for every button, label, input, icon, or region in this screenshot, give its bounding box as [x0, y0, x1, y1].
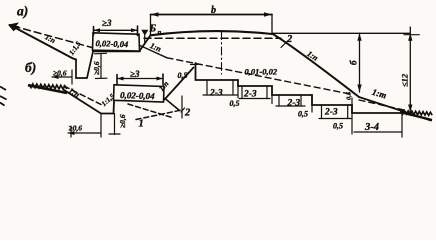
svg-text:≤12: ≤12 — [400, 73, 410, 87]
svg-text:0,02-0,04: 0,02-0,04 — [120, 90, 155, 101]
svg-text:а): а) — [17, 4, 28, 19]
svg-text:≥0,6: ≥0,6 — [53, 69, 67, 78]
svg-text:2: 2 — [286, 34, 293, 45]
svg-text:б): б) — [25, 60, 36, 75]
svg-text:2-3: 2-3 — [243, 90, 257, 100]
svg-text:2: 2 — [184, 108, 191, 119]
svg-text:2-3: 2-3 — [209, 89, 223, 99]
svg-text:1:n: 1:n — [149, 41, 163, 54]
svg-text:≥3: ≥3 — [102, 18, 112, 28]
svg-text:2-3: 2-3 — [287, 99, 301, 109]
svg-text:Б: Б — [149, 24, 157, 35]
svg-text:1: 1 — [139, 119, 144, 130]
svg-text:≥3: ≥3 — [130, 69, 140, 79]
svg-text:0,5: 0,5 — [230, 99, 240, 108]
svg-text:3-4: 3-4 — [364, 122, 379, 133]
svg-text:б: б — [349, 60, 359, 65]
svg-text:0,5: 0,5 — [346, 91, 353, 100]
svg-text:≥0,6: ≥0,6 — [92, 61, 101, 75]
svg-text:0,5: 0,5 — [178, 71, 188, 80]
svg-text:2-3: 2-3 — [324, 108, 338, 118]
svg-text:≥0,6: ≥0,6 — [69, 124, 83, 133]
svg-text:b: b — [211, 5, 216, 16]
svg-text:1:m: 1:m — [371, 87, 388, 101]
svg-text:0,02-0,04: 0,02-0,04 — [95, 38, 128, 49]
svg-text:0,5: 0,5 — [333, 122, 343, 131]
svg-text:п: п — [158, 29, 162, 37]
svg-text:≥0,6: ≥0,6 — [118, 114, 127, 128]
svg-text:1:n: 1:n — [305, 49, 320, 63]
svg-text:0,01-0,02: 0,01-0,02 — [245, 67, 278, 77]
svg-text:0,5: 0,5 — [298, 110, 308, 119]
svg-text:1:n: 1:n — [157, 79, 171, 93]
